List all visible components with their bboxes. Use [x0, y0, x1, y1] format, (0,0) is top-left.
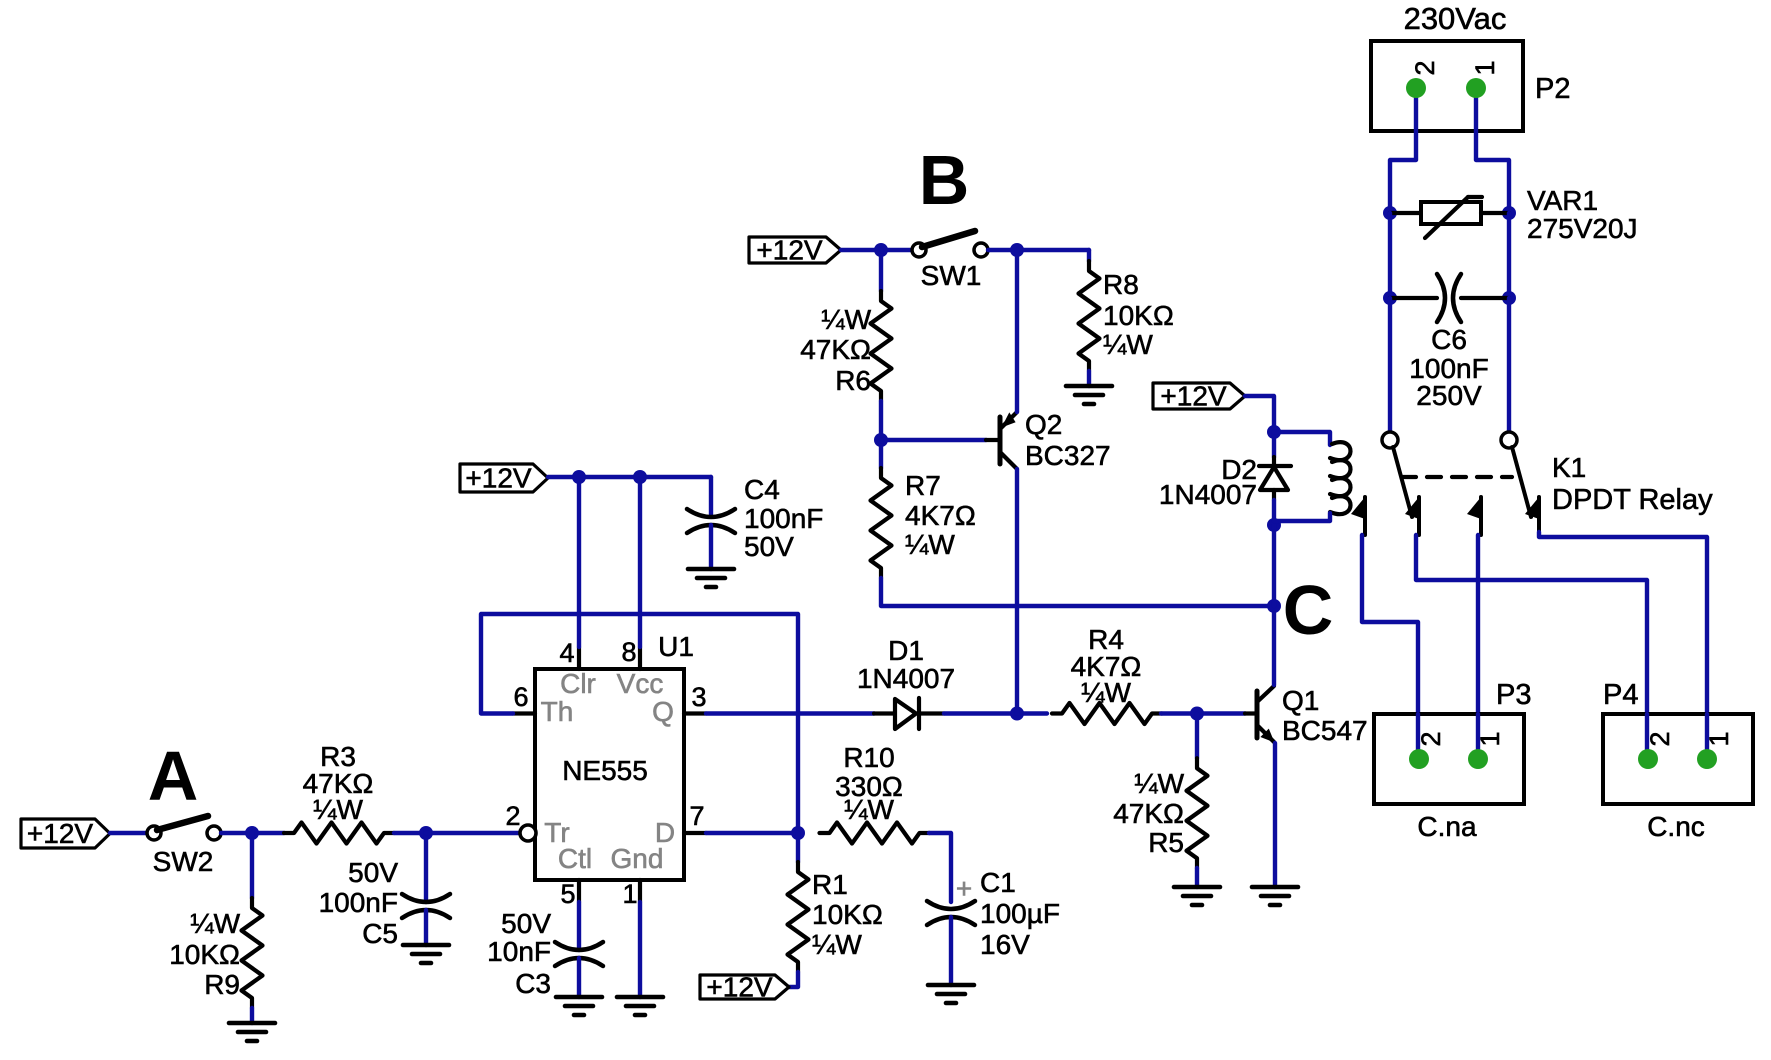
svg-text:¼W: ¼W: [821, 304, 871, 335]
svg-text:2: 2: [1416, 731, 1446, 746]
svg-text:Vcc: Vcc: [617, 668, 664, 699]
svg-text:C4: C4: [744, 474, 780, 505]
svg-text:SW2: SW2: [153, 846, 214, 877]
svg-text:P2: P2: [1535, 73, 1570, 105]
svg-text:¼W: ¼W: [1081, 677, 1131, 708]
svg-text:A: A: [148, 737, 199, 815]
svg-text:10KΩ: 10KΩ: [1103, 300, 1174, 331]
svg-text:1N4007: 1N4007: [1159, 479, 1257, 510]
svg-text:Q1: Q1: [1282, 685, 1319, 716]
svg-text:47KΩ: 47KΩ: [800, 334, 871, 365]
svg-text:¼W: ¼W: [844, 794, 894, 825]
svg-text:2: 2: [1410, 60, 1440, 75]
svg-text:C5: C5: [362, 918, 398, 949]
svg-text:2: 2: [1645, 731, 1675, 746]
svg-text:R9: R9: [204, 969, 240, 1000]
svg-text:DPDT Relay: DPDT Relay: [1552, 484, 1713, 516]
svg-text:BC327: BC327: [1025, 440, 1111, 471]
svg-text:8: 8: [621, 637, 636, 667]
svg-text:4K7Ω: 4K7Ω: [905, 500, 976, 531]
svg-text:50V: 50V: [348, 857, 398, 888]
svg-text:275V20J: 275V20J: [1527, 213, 1638, 244]
svg-text:¼W: ¼W: [190, 908, 240, 939]
svg-text:100nF: 100nF: [319, 887, 398, 918]
svg-text:¼W: ¼W: [812, 929, 862, 960]
svg-text:¼W: ¼W: [1134, 768, 1184, 799]
svg-text:Q2: Q2: [1025, 409, 1062, 440]
svg-text:¼W: ¼W: [905, 529, 955, 560]
svg-text:5: 5: [560, 879, 575, 909]
svg-text:R1: R1: [812, 869, 848, 900]
svg-text:+12V: +12V: [756, 235, 822, 266]
svg-text:C.na: C.na: [1417, 811, 1477, 842]
svg-text:R5: R5: [1148, 827, 1184, 858]
svg-text:C.nc: C.nc: [1647, 811, 1705, 842]
svg-text:47KΩ: 47KΩ: [1113, 798, 1184, 829]
svg-text:1: 1: [1704, 731, 1734, 746]
svg-text:2: 2: [505, 801, 520, 831]
svg-text:C3: C3: [515, 968, 551, 999]
svg-text:SW1: SW1: [921, 260, 982, 291]
svg-text:10KΩ: 10KΩ: [812, 899, 883, 930]
svg-text:NE555: NE555: [562, 755, 648, 786]
svg-text:1N4007: 1N4007: [857, 663, 955, 694]
svg-text:D1: D1: [888, 635, 924, 666]
svg-text:B: B: [919, 141, 970, 219]
svg-text:10nF: 10nF: [487, 936, 551, 967]
svg-text:100µF: 100µF: [980, 898, 1060, 929]
svg-text:50V: 50V: [744, 531, 794, 562]
svg-text:¼W: ¼W: [1103, 329, 1153, 360]
svg-text:¼W: ¼W: [313, 794, 363, 825]
svg-text:C1: C1: [980, 867, 1016, 898]
svg-text:3: 3: [691, 682, 706, 712]
svg-text:16V: 16V: [980, 929, 1030, 960]
svg-text:R8: R8: [1103, 269, 1139, 300]
svg-text:+12V: +12V: [465, 463, 531, 494]
svg-text:7: 7: [689, 801, 704, 831]
svg-text:1: 1: [1475, 731, 1505, 746]
svg-text:VAR1: VAR1: [1527, 185, 1598, 216]
svg-text:U1: U1: [658, 631, 694, 662]
svg-text:Q: Q: [652, 696, 674, 727]
svg-text:R10: R10: [843, 742, 894, 773]
svg-text:Ctl: Ctl: [558, 843, 592, 874]
svg-text:+12V: +12V: [1160, 381, 1226, 412]
svg-text:R6: R6: [835, 365, 871, 396]
svg-text:Th: Th: [541, 696, 574, 727]
svg-text:P3: P3: [1496, 679, 1531, 711]
svg-text:+12V: +12V: [706, 972, 772, 1003]
svg-text:Clr: Clr: [560, 668, 596, 699]
svg-text:230Vac: 230Vac: [1404, 1, 1507, 36]
svg-text:+12V: +12V: [27, 818, 93, 849]
svg-text:+: +: [956, 873, 972, 904]
svg-text:R7: R7: [905, 470, 941, 501]
svg-text:Gnd: Gnd: [611, 843, 664, 874]
svg-text:BC547: BC547: [1282, 715, 1368, 746]
svg-text:1: 1: [1470, 60, 1500, 75]
svg-text:50V: 50V: [501, 908, 551, 939]
svg-text:1: 1: [622, 879, 637, 909]
svg-text:250V: 250V: [1416, 380, 1482, 411]
svg-text:C: C: [1283, 571, 1334, 649]
svg-text:10KΩ: 10KΩ: [169, 939, 240, 970]
svg-text:K1: K1: [1552, 452, 1586, 483]
svg-text:6: 6: [513, 682, 528, 712]
svg-text:P4: P4: [1603, 679, 1638, 711]
svg-text:4: 4: [559, 638, 574, 668]
svg-text:C6: C6: [1431, 324, 1467, 355]
svg-text:100nF: 100nF: [744, 503, 823, 534]
